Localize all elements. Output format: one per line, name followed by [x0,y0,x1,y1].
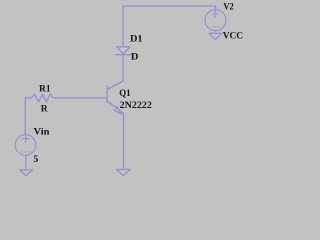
diode D1 [116,47,131,55]
svg-text:2N2222: 2N2222 [120,101,152,111]
Vin minus [21,151,31,153]
svg-text:R: R [41,105,48,115]
svg-text:Vin: Vin [34,127,51,137]
svg-text:D: D [131,53,139,63]
svg-text:5: 5 [34,155,39,165]
svg-text:VCC: VCC [223,31,243,41]
Vin plus [22,135,29,142]
svg-text:R1: R1 [39,84,51,94]
power flag VCC [209,33,222,39]
source V2 circle [205,10,226,31]
svg-text:D1: D1 [130,35,143,45]
wire left vertical to Vin [24,98,26,135]
resistor R1 [25,94,53,102]
V2 plus [212,11,219,18]
wire base [54,97,108,99]
transistor Q1 [107,81,123,114]
wire emitter vertical [123,114,125,170]
source Vin circle [15,135,36,156]
V2 minus [212,26,220,28]
wire left vertical to diode [122,6,124,47]
wire Vin to ground [25,155,27,170]
svg-text:V2: V2 [223,2,234,12]
wire V2 to VCC flag [215,31,217,34]
ground (emitter) [116,169,130,175]
wire top horizontal [123,6,216,10]
svg-text:Q1: Q1 [119,89,131,99]
ground (Vin) [20,170,33,176]
wire diode to collector [122,55,124,81]
